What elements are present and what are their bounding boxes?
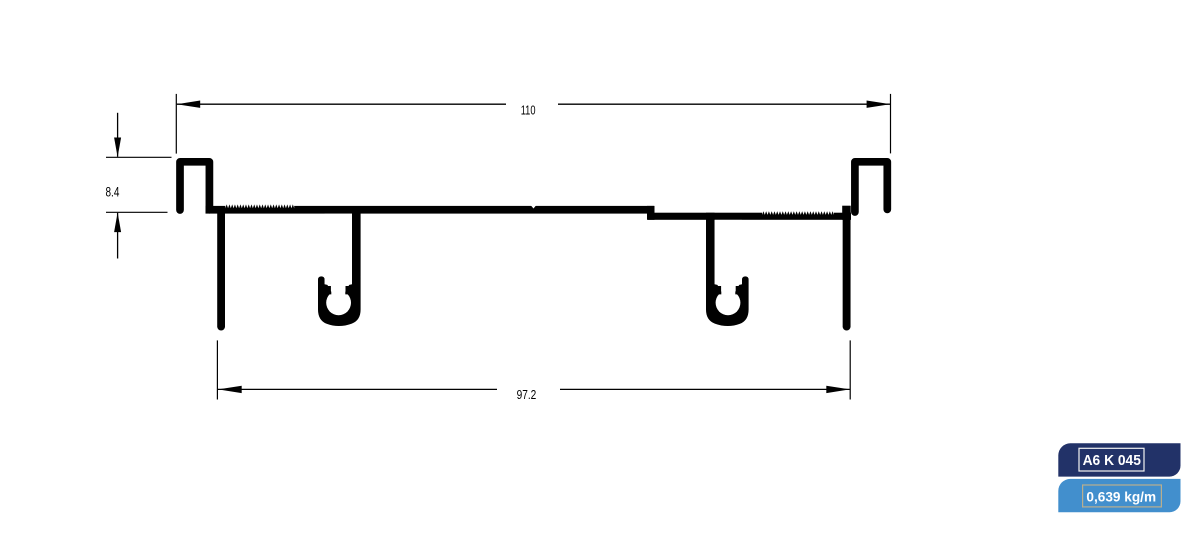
right screw-port hook: stem nub <box>715 284 722 294</box>
left screw-port hook: wall nub <box>325 284 332 294</box>
label A6 K 045 inner border <box>1079 448 1144 471</box>
dim 8.4: upper arrowhead (down) <box>114 138 121 158</box>
label 0,639 kg/m inner border <box>1083 485 1162 507</box>
dim 97.2: right arrowhead <box>826 386 850 393</box>
dim 8.4: lower extension line <box>106 211 168 213</box>
profile: step between upper and lower bar <box>647 206 655 220</box>
profile: right riser <box>842 206 851 220</box>
right screw-port hook: body <box>706 213 749 326</box>
left screw-port hook: channel opening <box>325 214 352 286</box>
profile: right upstand hook (inverted U) <box>855 162 887 212</box>
svg-text:8.4: 8.4 <box>106 184 120 199</box>
dim 110: line left part <box>177 103 506 105</box>
profile: left upstand hook (inverted U) <box>180 162 209 210</box>
right screw-port hook: screw hole <box>716 290 741 315</box>
right screw-port hook: channel opening <box>715 220 742 286</box>
label box A6 K 045 (navy) <box>1058 443 1180 476</box>
profile: upper top bar <box>206 206 655 214</box>
dim 110: line right part <box>558 103 890 105</box>
dim 97.2: left extension line <box>216 340 218 399</box>
serration right (knurling) <box>762 211 834 216</box>
dim 8.4: lower leader line <box>117 213 119 259</box>
dim 110: left extension line <box>175 94 177 154</box>
dim 110: right extension line <box>890 94 892 153</box>
svg-text:0,639 kg/m: 0,639 kg/m <box>1086 490 1156 505</box>
center notch <box>531 205 537 208</box>
dim 97.2: line left part <box>218 388 497 390</box>
serration left erase strip <box>225 204 294 209</box>
svg-text:97.2: 97.2 <box>517 387 537 402</box>
dim 97.2: right extension line <box>849 340 851 399</box>
svg-text:A6 K 045: A6 K 045 <box>1083 453 1141 469</box>
left screw-port hook: body <box>318 209 361 326</box>
serration left (knurling) <box>225 204 294 209</box>
dim 97.2: left arrowhead <box>218 386 242 393</box>
left screw-port hook: screw hole <box>326 290 351 315</box>
dim 97.2: line right part <box>560 388 850 390</box>
label box 0,639 kg/m (blue) <box>1058 479 1180 512</box>
dim 8.4: upper extension line <box>106 156 172 158</box>
right screw-port hook: wall nub <box>735 284 742 294</box>
dim 8.4: upper leader line <box>117 113 119 157</box>
dim 110: left arrowhead <box>177 101 201 108</box>
left screw-port hook: throat slot <box>331 285 346 294</box>
profile: right leg <box>843 212 851 327</box>
dim 8.4: lower arrowhead (up) <box>114 213 121 233</box>
dim 110: right arrowhead <box>867 101 891 108</box>
serration right erase strip <box>762 210 834 215</box>
svg-text:110: 110 <box>521 103 536 118</box>
profile: left leg <box>217 210 225 327</box>
right screw-port hook: throat slot <box>721 285 736 294</box>
profile: lower top bar <box>648 213 851 220</box>
left screw-port hook: stem nub <box>345 284 352 294</box>
